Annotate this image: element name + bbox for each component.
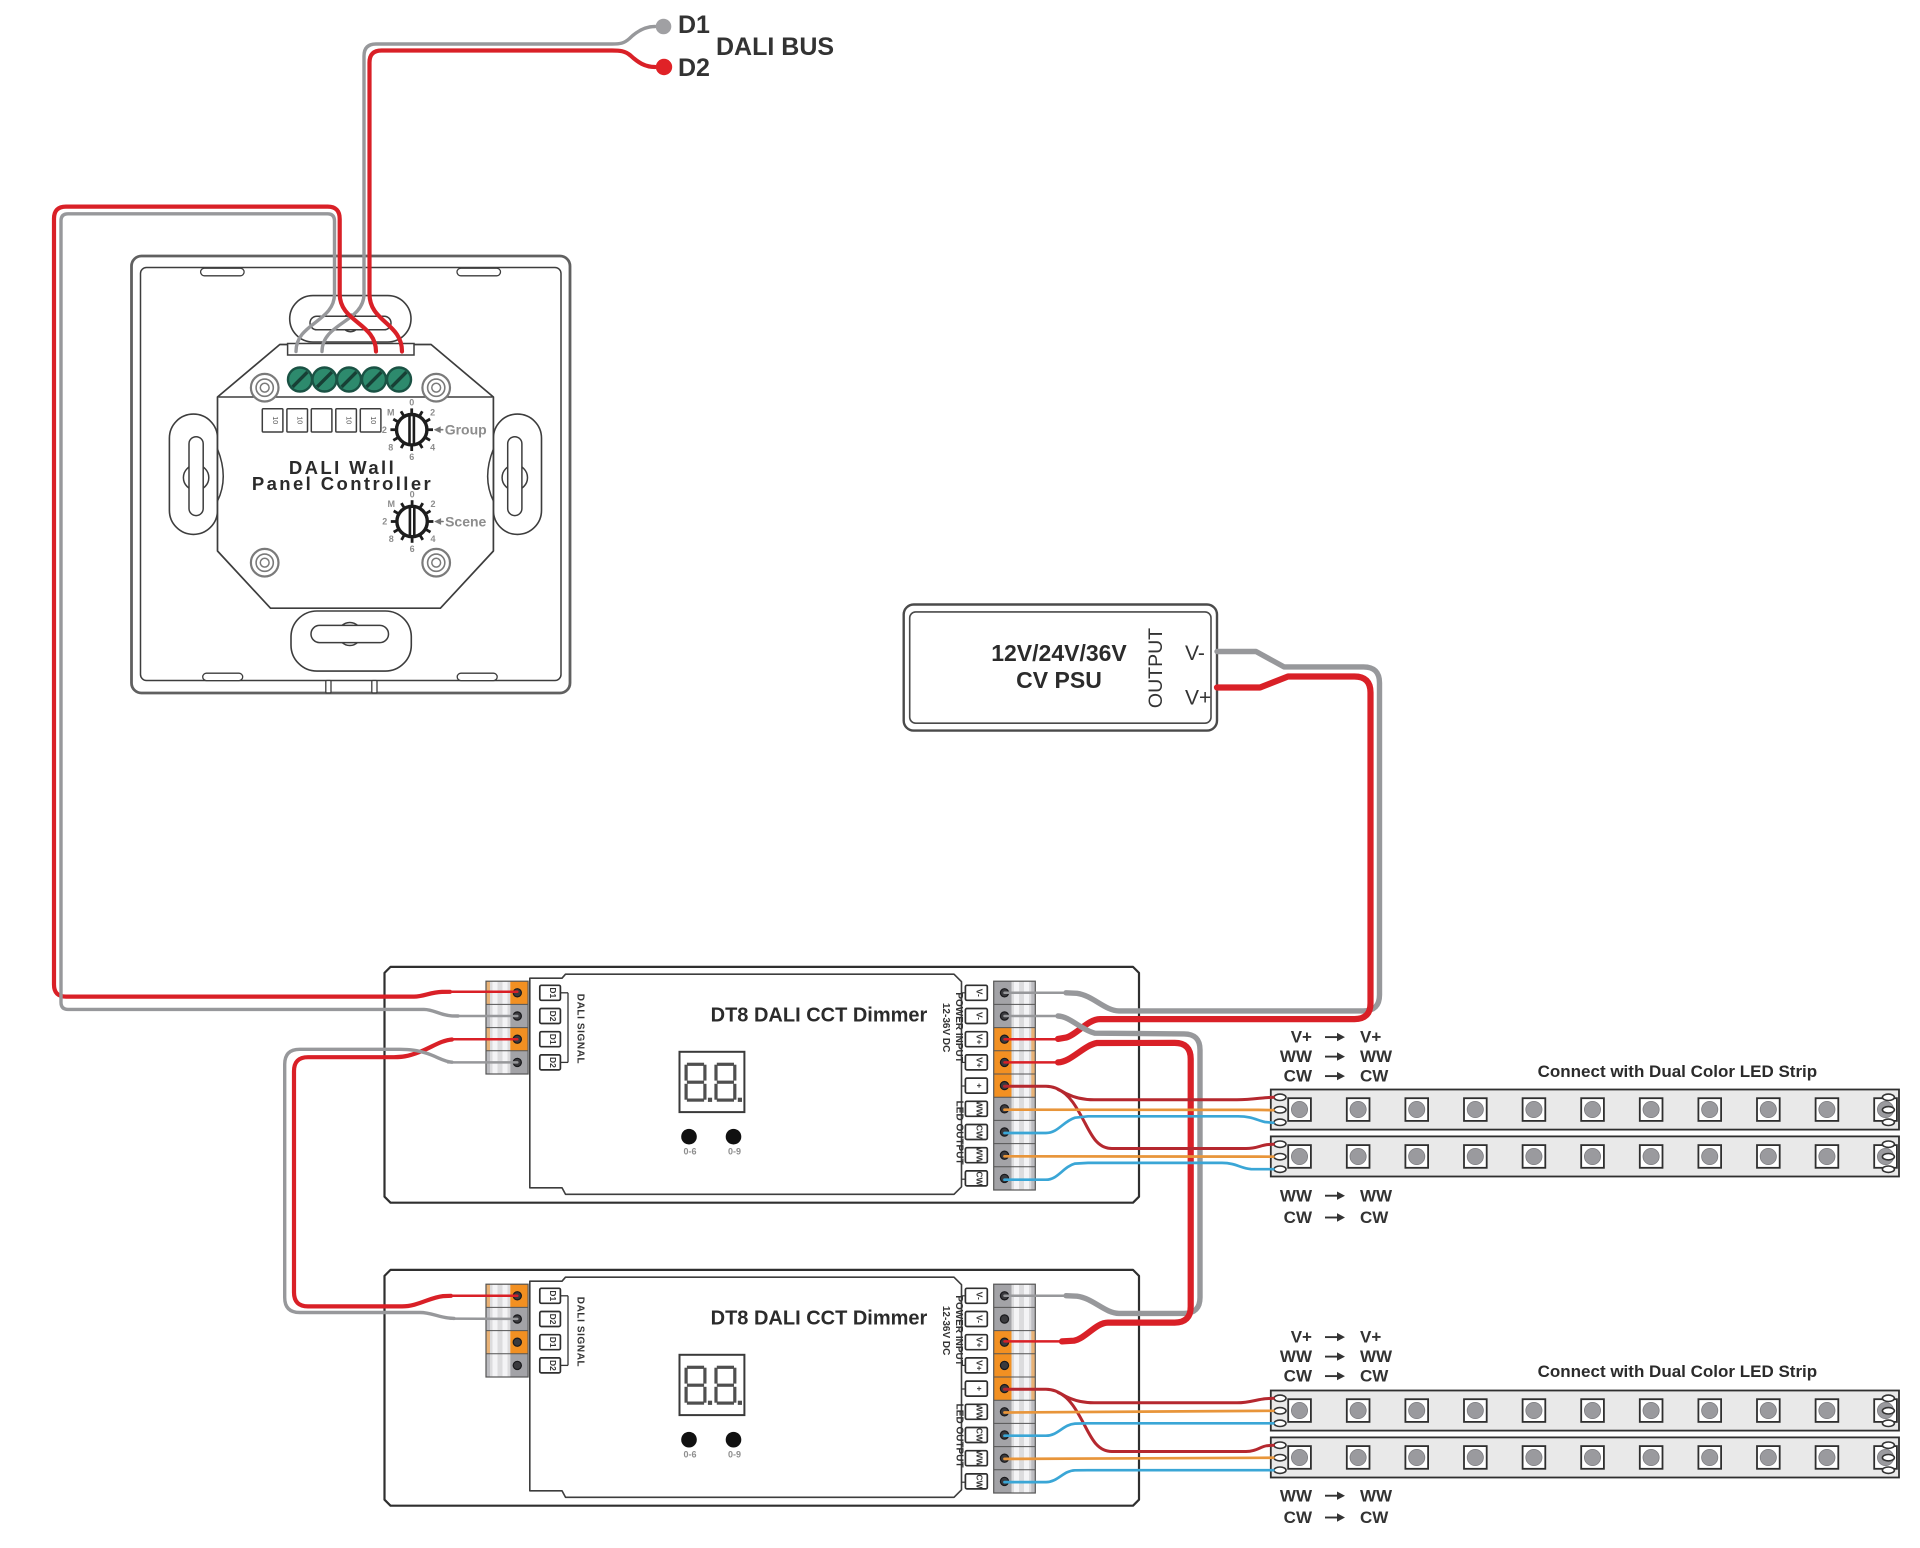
- svg-text:2: 2: [382, 517, 387, 527]
- wire DALI D1 gray: panel to dimmer1 D2: [61, 214, 458, 1016]
- inner frame clip tabs bottom: [203, 673, 243, 680]
- svg-text:D1: D1: [548, 1034, 558, 1045]
- wire DALI D2 red: panel to dimmer1 D1: [54, 207, 450, 997]
- svg-text:V+: V+: [1360, 1328, 1381, 1347]
- svg-text:12-36V DC: 12-36V DC: [940, 1003, 951, 1052]
- svg-text:WW: WW: [974, 1101, 984, 1118]
- svg-text:V-: V-: [974, 1012, 984, 1020]
- svg-text:2: 2: [382, 425, 387, 435]
- svg-text:D2: D2: [548, 1057, 558, 1068]
- svg-text:0-6: 0-6: [683, 1147, 696, 1157]
- wire WW dimmer2 strip1: [1005, 1411, 1274, 1413]
- svg-text:2: 2: [430, 407, 435, 417]
- svg-text:V-: V-: [974, 1292, 984, 1300]
- wire LED + dimmer2 strip2: [1058, 1393, 1274, 1452]
- svg-text:+: +: [974, 1386, 984, 1391]
- svg-text:10: 10: [271, 416, 278, 424]
- svg-text:WW: WW: [1360, 1186, 1393, 1205]
- wire LED + dimmer1 strip2: [1058, 1090, 1274, 1149]
- svg-text:DALI BUS: DALI BUS: [716, 33, 834, 61]
- svg-text:V+: V+: [974, 1057, 984, 1068]
- node D1 dot: [656, 19, 672, 35]
- svg-text:WW: WW: [974, 1404, 984, 1421]
- svg-text:OUTPUT: OUTPUT: [1145, 628, 1167, 708]
- dimmer 2 7-segment display: [680, 1355, 745, 1415]
- dimmer 1 DALI terminal block: [486, 981, 510, 1004]
- svg-text:Connect with Dual Color LED St: Connect with Dual Color LED Strip: [1538, 1062, 1818, 1081]
- svg-text:CW: CW: [974, 1428, 984, 1443]
- wire WW dimmer1 strip1: [1005, 1108, 1274, 1111]
- ear clip bumps: [218, 449, 224, 501]
- svg-text:WW: WW: [974, 1147, 984, 1164]
- wire V+ red: dimmer1 to dimmer2: [1058, 1043, 1191, 1342]
- Group dial: [382, 398, 487, 463]
- dimmer 1 terminal name labels: [965, 985, 987, 1000]
- left mounting ear: [169, 414, 217, 534]
- wire WW dimmer1 strip2: [1005, 1155, 1274, 1158]
- svg-text:V+: V+: [1291, 1328, 1312, 1347]
- svg-text:M: M: [387, 407, 395, 417]
- svg-text:POWER INPUT: POWER INPUT: [953, 1295, 964, 1366]
- svg-text:CW: CW: [974, 1474, 984, 1489]
- right mounting ear: [493, 414, 541, 534]
- svg-text:D1: D1: [678, 11, 710, 39]
- svg-text:0-9: 0-9: [728, 1147, 741, 1157]
- wire DALI bus D1 (gray): [322, 27, 655, 352]
- svg-text:CW: CW: [1284, 1067, 1313, 1086]
- svg-text:4: 4: [430, 534, 435, 544]
- bottom mounting ear: [291, 611, 411, 671]
- wall panel inner frame: [141, 268, 562, 681]
- svg-text:WW: WW: [974, 1450, 984, 1467]
- wire CW dimmer2 strip1: [1005, 1423, 1274, 1435]
- svg-text:DALI SIGNAL: DALI SIGNAL: [575, 994, 586, 1065]
- svg-text:V+: V+: [1185, 687, 1211, 710]
- svg-text:V+: V+: [974, 1337, 984, 1348]
- LED strip 1B: [1271, 1136, 1899, 1176]
- svg-text:CW: CW: [1360, 1367, 1389, 1386]
- dimmer 2 D1/D2 labels: [540, 1288, 561, 1303]
- svg-text:V-: V-: [1185, 642, 1205, 665]
- wire DALI red: dimmer1 D1 to dimmer2 D1: [294, 1040, 452, 1307]
- svg-text:Group: Group: [445, 422, 487, 438]
- inner frame clip tabs top: [201, 268, 245, 276]
- svg-text:10: 10: [369, 416, 376, 424]
- svg-text:V-: V-: [974, 989, 984, 997]
- svg-text:POWER INPUT: POWER INPUT: [953, 992, 964, 1063]
- svg-text:+: +: [974, 1083, 984, 1088]
- separator line below terminals: [219, 396, 493, 398]
- dimmer 2 inner body: [530, 1277, 962, 1497]
- svg-text:CW: CW: [1360, 1067, 1389, 1086]
- svg-text:WW: WW: [1360, 1486, 1393, 1505]
- svg-text:CW: CW: [974, 1171, 984, 1186]
- svg-text:6: 6: [409, 452, 414, 462]
- svg-text:Scene: Scene: [445, 514, 486, 530]
- svg-text:D1: D1: [548, 987, 558, 998]
- LED strip 2B: [1271, 1437, 1899, 1477]
- Scene dial: [382, 489, 486, 554]
- svg-text:V+: V+: [1291, 1028, 1312, 1047]
- wire LED + dimmer1 strip1: [1005, 1086, 1274, 1100]
- svg-text:V+: V+: [974, 1360, 984, 1371]
- svg-text:D2: D2: [548, 1314, 558, 1325]
- svg-text:DT8 DALI CCT Dimmer: DT8 DALI CCT Dimmer: [711, 1005, 928, 1027]
- dimmer 1 inner body: [530, 974, 962, 1194]
- svg-text:10: 10: [295, 416, 302, 424]
- svg-text:2: 2: [430, 499, 435, 509]
- svg-text:0-9: 0-9: [728, 1450, 741, 1460]
- svg-text:D2: D2: [548, 1011, 558, 1022]
- DT8 DALI CCT Dimmer 2 housing: [385, 1270, 1140, 1506]
- dimmer 2 terminal name labels: [965, 1288, 987, 1303]
- svg-text:12-36V DC: 12-36V DC: [940, 1306, 951, 1355]
- svg-text:12V/24V/36V: 12V/24V/36V: [991, 640, 1127, 666]
- PSU 12V/24V/36V CV outer box: [904, 605, 1217, 731]
- LED strip 1A: [1271, 1090, 1899, 1130]
- svg-text:D2: D2: [548, 1360, 558, 1371]
- dimmer 1 buttons 0-6 / 0-9: [681, 1129, 697, 1145]
- wire CW dimmer1 strip2: [1005, 1163, 1274, 1180]
- top mounting ear: [290, 296, 411, 342]
- PSU inner box: [910, 612, 1211, 723]
- svg-text:D1: D1: [548, 1337, 558, 1348]
- dimmer 1 7-segment display: [680, 1052, 745, 1112]
- wire CW dimmer1 strip1: [1005, 1116, 1274, 1133]
- svg-text:CV PSU: CV PSU: [1016, 667, 1102, 693]
- DT8 DALI CCT Dimmer 1 housing: [385, 967, 1140, 1203]
- svg-text:CW: CW: [1284, 1367, 1313, 1386]
- wire DALI gray: dimmer1 D2 to dimmer2 D2: [285, 1049, 454, 1318]
- svg-text:6: 6: [410, 544, 415, 554]
- wire PSU V+ red to dimmer1: [1058, 677, 1371, 1039]
- corner screws: [251, 374, 279, 402]
- wire CW dimmer2 strip2: [1005, 1470, 1274, 1482]
- wire DALI bus D2 (red): [370, 51, 656, 352]
- svg-text:WW: WW: [1360, 1347, 1393, 1366]
- svg-text:Panel Controller: Panel Controller: [252, 473, 433, 494]
- DIP setting boxes: [262, 409, 283, 432]
- svg-text:8: 8: [388, 442, 393, 452]
- svg-text:V+: V+: [974, 1034, 984, 1045]
- wire LED + dimmer2 strip1: [1005, 1389, 1274, 1403]
- svg-text:D2: D2: [678, 54, 710, 82]
- terminal strip: [288, 344, 414, 356]
- octagon body: [218, 345, 494, 609]
- svg-text:LED OUTPUT: LED OUTPUT: [954, 1404, 965, 1468]
- svg-text:WW: WW: [1280, 1186, 1313, 1205]
- svg-text:0: 0: [409, 398, 414, 408]
- bottom center slots: [326, 681, 331, 693]
- svg-text:CW: CW: [1284, 1508, 1313, 1527]
- svg-text:M: M: [387, 499, 395, 509]
- svg-text:LED OUTPUT: LED OUTPUT: [954, 1101, 965, 1165]
- svg-text:Connect with Dual Color LED St: Connect with Dual Color LED Strip: [1538, 1362, 1818, 1381]
- svg-text:DT8 DALI CCT Dimmer: DT8 DALI CCT Dimmer: [711, 1308, 928, 1330]
- LED strip 2A: [1271, 1391, 1899, 1431]
- svg-text:8: 8: [389, 534, 394, 544]
- svg-text:4: 4: [430, 442, 435, 452]
- dimmer 2 DALI terminal block: [486, 1284, 510, 1307]
- svg-text:CW: CW: [1284, 1208, 1313, 1227]
- svg-text:CW: CW: [1360, 1508, 1389, 1527]
- wire WW dimmer2 strip2: [1005, 1458, 1274, 1459]
- svg-text:WW: WW: [1360, 1047, 1393, 1066]
- dimmer 2 power/output terminal block: [1012, 1284, 1036, 1307]
- svg-text:CW: CW: [1360, 1208, 1389, 1227]
- node D2 dot: [656, 59, 672, 75]
- dimmer 1 D1/D2 labels: [540, 985, 561, 1000]
- dimmer 2 buttons 0-6 / 0-9: [681, 1432, 697, 1448]
- svg-text:WW: WW: [1280, 1486, 1313, 1505]
- dimmer 1 power/output terminal block: [1012, 981, 1036, 1004]
- svg-text:WW: WW: [1280, 1347, 1313, 1366]
- svg-text:D1: D1: [548, 1290, 558, 1301]
- svg-text:V-: V-: [974, 1315, 984, 1323]
- svg-text:WW: WW: [1280, 1047, 1313, 1066]
- green screw terminals: [288, 368, 312, 392]
- wire PSU V- gray to dimmer1: [1066, 652, 1380, 1011]
- svg-text:CW: CW: [974, 1125, 984, 1140]
- svg-text:V+: V+: [1360, 1028, 1381, 1047]
- svg-text:DALI SIGNAL: DALI SIGNAL: [575, 1297, 586, 1368]
- wire V- gray: dimmer1 to dimmer2: [1058, 1016, 1200, 1313]
- wall panel outer frame: [132, 256, 571, 693]
- svg-text:0-6: 0-6: [683, 1450, 696, 1460]
- svg-text:10: 10: [344, 416, 351, 424]
